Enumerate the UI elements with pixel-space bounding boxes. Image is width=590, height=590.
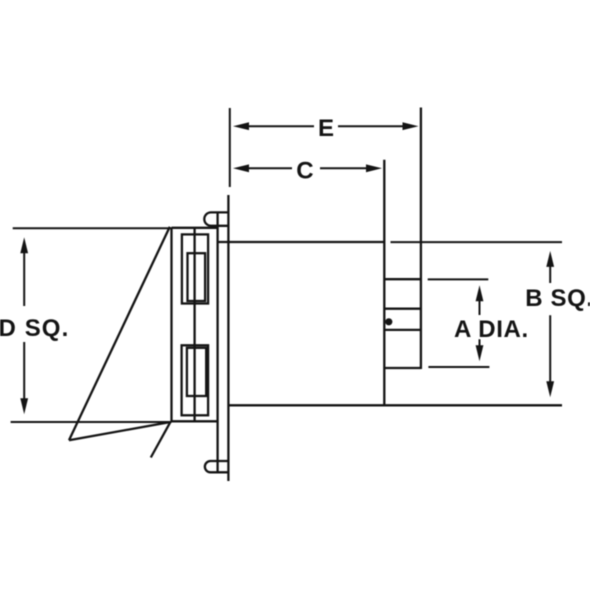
D SQ. dimension line <box>23 250 25 401</box>
screw dot on collar <box>385 318 392 325</box>
svg-text:A DIA.: A DIA. <box>454 316 529 343</box>
arrowhead A top <box>476 285 484 301</box>
bottom louver outer rectangle <box>182 345 209 415</box>
open flap diagonal <box>69 227 170 440</box>
B SQ. top extension line <box>391 241 563 243</box>
svg-text:B SQ.: B SQ. <box>525 285 590 312</box>
arrowhead E left <box>233 122 249 130</box>
bottom louver inner rectangle <box>187 348 206 396</box>
B SQ. dimension line <box>549 264 551 384</box>
top louver inner rectangle <box>188 253 206 301</box>
mounting plate left edge <box>216 212 218 472</box>
arrowhead B top <box>546 251 554 267</box>
hood center line <box>193 228 195 421</box>
svg-text:D SQ.: D SQ. <box>0 315 69 342</box>
E and C left extension line <box>229 108 231 187</box>
arrowhead D top <box>20 237 28 253</box>
svg-text:E: E <box>318 115 334 142</box>
D SQ. top extension line <box>13 227 172 229</box>
dimension line C <box>248 167 368 169</box>
svg-text:C: C <box>296 157 313 184</box>
top louver outer rectangle <box>182 234 208 303</box>
flap lower lip <box>151 422 171 458</box>
bottom mounting tab <box>205 461 229 472</box>
arrowhead D bottom <box>20 398 28 414</box>
A DIA. dimension line <box>479 298 481 348</box>
collar bottom edge <box>384 367 421 369</box>
dimension line E <box>248 125 404 127</box>
A DIA. top extension line <box>428 278 489 280</box>
mounting plate right edge <box>227 195 229 481</box>
D SQ. bottom extension line <box>11 421 172 423</box>
collar top edge <box>384 278 421 280</box>
body top edge <box>218 241 384 243</box>
body right edge with C extension <box>383 160 385 406</box>
body bottom edge with extension <box>228 404 562 406</box>
top mounting tab <box>204 212 228 225</box>
arrowhead E right <box>403 122 419 130</box>
arrowhead B bottom <box>546 381 554 397</box>
A DIA. bottom extension line <box>428 366 489 368</box>
arrowhead C left <box>233 164 249 172</box>
arrowhead C right <box>366 164 382 172</box>
arrowhead A bottom <box>476 345 484 361</box>
collar right edge with E extension <box>420 108 422 370</box>
collar band line lower <box>384 329 421 331</box>
hood frame <box>172 228 218 422</box>
flap inner edge <box>69 422 171 440</box>
collar band line upper <box>384 308 421 310</box>
